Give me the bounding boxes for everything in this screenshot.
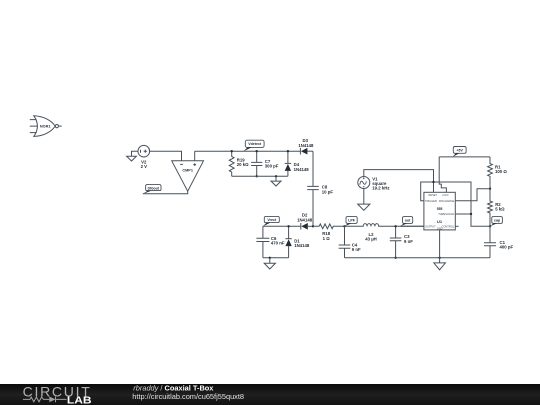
- flag Vrect: [263, 216, 279, 226]
- node R19 top: [231, 150, 233, 152]
- svg-text:NOR1: NOR1: [40, 125, 51, 129]
- flag +5V: [453, 147, 467, 157]
- node C7 top: [256, 150, 258, 152]
- wire bottom rail C6-D1: [263, 257, 289, 259]
- svg-text:20 kΩ: 20 kΩ: [237, 162, 249, 167]
- svg-text:43 µH: 43 µH: [365, 237, 377, 242]
- svg-text:2 V: 2 V: [141, 164, 148, 169]
- wire bottom rail R19-C7-D4: [232, 175, 288, 177]
- wire output to out node: [400, 225, 424, 227]
- svg-text:out: out: [405, 219, 411, 223]
- svg-text:http://circuitlab.com/cu65fj55: http://circuitlab.com/cu65fj55quxt8: [132, 392, 244, 401]
- wire V1 to RESET: [364, 170, 434, 193]
- svg-text:19.2 kHz: 19.2 kHz: [372, 186, 389, 191]
- capacitor C4: [339, 226, 361, 257]
- svg-text:+VCC: +VCC: [442, 193, 449, 197]
- svg-text:TRIGGER: TRIGGER: [425, 199, 437, 203]
- svg-text:400 pF: 400 pF: [500, 245, 514, 250]
- voltage source V1 square: [358, 176, 390, 190]
- capacitor C1: [484, 226, 513, 257]
- svg-text:1N4148: 1N4148: [294, 243, 310, 248]
- wire threshold: [455, 213, 471, 215]
- wire V2 to ground: [132, 151, 139, 156]
- svg-text:LAB: LAB: [67, 396, 92, 405]
- inductor L2: [345, 224, 424, 242]
- node C3 top: [394, 225, 396, 227]
- capacitor C3: [390, 226, 413, 257]
- node ground rail: [275, 175, 277, 177]
- wire +5V to VCC jog: [439, 157, 446, 192]
- wire control stub: [455, 225, 458, 227]
- svg-text:CONTROL: CONTROL: [442, 224, 455, 228]
- node C3 bottom: [394, 257, 396, 259]
- diode D4 1N4148: [285, 151, 310, 176]
- svg-text:470 nF: 470 nF: [271, 241, 285, 246]
- svg-text:+5V: +5V: [456, 149, 463, 153]
- resistor R19: [229, 151, 249, 176]
- node R1-R2-discharge: [489, 188, 491, 190]
- capacitor C6: [256, 226, 284, 257]
- wire top rail to D3: [195, 150, 301, 152]
- node U1 gnd: [438, 257, 440, 259]
- diode D2 1N4148: [263, 213, 313, 230]
- svg-text:9 nF: 9 nF: [404, 239, 413, 244]
- logo wire-resistor-diode: [23, 397, 67, 403]
- wire V2 to CMP1 minus input: [150, 151, 182, 161]
- voltage source V2: [138, 145, 150, 169]
- node reset-trigger rail: [432, 181, 434, 183]
- svg-text:LPF: LPF: [348, 219, 356, 223]
- ground at V1: [358, 204, 370, 210]
- svg-text:100 Ω: 100 Ω: [495, 169, 507, 174]
- svg-text:10 pF: 10 pF: [322, 189, 334, 194]
- svg-text:OUTPUT: OUTPUT: [425, 224, 436, 228]
- svg-text:1N4148: 1N4148: [297, 217, 313, 222]
- ground at V2: [127, 156, 137, 161]
- svg-text:THRESHOLD: THRESHOLD: [438, 212, 454, 216]
- 555 timer U1: [424, 192, 455, 230]
- svg-text:555: 555: [437, 207, 443, 211]
- wire CMP1 plus input to top rail: [194, 151, 196, 161]
- node LPF: [343, 225, 345, 227]
- wire U1 gnd: [439, 230, 441, 258]
- node threshold: [470, 213, 472, 215]
- svg-text:cap: cap: [494, 219, 501, 223]
- node D2-C8-R18: [312, 225, 314, 227]
- svg-text:U1: U1: [437, 219, 443, 224]
- svg-text:1N4148: 1N4148: [298, 143, 314, 148]
- svg-text:Vdetect: Vdetect: [248, 142, 262, 146]
- svg-text:RESET: RESET: [428, 193, 437, 197]
- node ground rail 2: [269, 257, 271, 259]
- svg-text:300 pF: 300 pF: [265, 164, 279, 169]
- flag Vdetect: [244, 140, 265, 151]
- resistor R2: [488, 189, 506, 227]
- node D4 top: [287, 150, 289, 152]
- flag out: [400, 217, 413, 227]
- ground under U1: [434, 258, 446, 270]
- ground under C7: [271, 176, 281, 186]
- flag DIGout: [143, 185, 161, 194]
- ground under C6: [264, 258, 275, 269]
- node C7 bottom: [256, 175, 258, 177]
- svg-text:CMP1: CMP1: [182, 168, 193, 172]
- wire +5V rail: [439, 156, 490, 158]
- svg-text:DISCHARGE: DISCHARGE: [439, 199, 455, 203]
- capacitor C7: [251, 151, 279, 176]
- wire trigger rail: [421, 182, 490, 226]
- node D1 top: [287, 225, 289, 227]
- svg-text:1N4148: 1N4148: [294, 167, 310, 172]
- op-amp CMP1: [172, 161, 204, 191]
- flag cap: [490, 217, 502, 227]
- resistor R18: [313, 224, 345, 241]
- diode D3 1N4148: [298, 138, 314, 154]
- svg-text:Vrect: Vrect: [267, 218, 277, 222]
- diode D1 1N4148: [285, 226, 309, 257]
- NOR gate NOR1: [30, 116, 62, 137]
- node cap: [489, 225, 491, 227]
- resistor R1: [488, 157, 508, 189]
- svg-text:1 Ω: 1 Ω: [323, 236, 331, 241]
- wire discharge to R1-R2: [455, 189, 490, 201]
- svg-text:DIGout: DIGout: [148, 186, 160, 190]
- footer bar: [0, 384, 540, 405]
- wire bottom rail C4 to C1: [345, 257, 491, 259]
- wire V1 to ground: [363, 189, 365, 205]
- wire CMP1 output to DIGout: [143, 191, 188, 194]
- svg-text:5 kΩ: 5 kΩ: [495, 207, 505, 212]
- flag LPF: [345, 217, 358, 227]
- svg-text:9 nF: 9 nF: [352, 247, 361, 252]
- capacitor C8: [307, 151, 333, 226]
